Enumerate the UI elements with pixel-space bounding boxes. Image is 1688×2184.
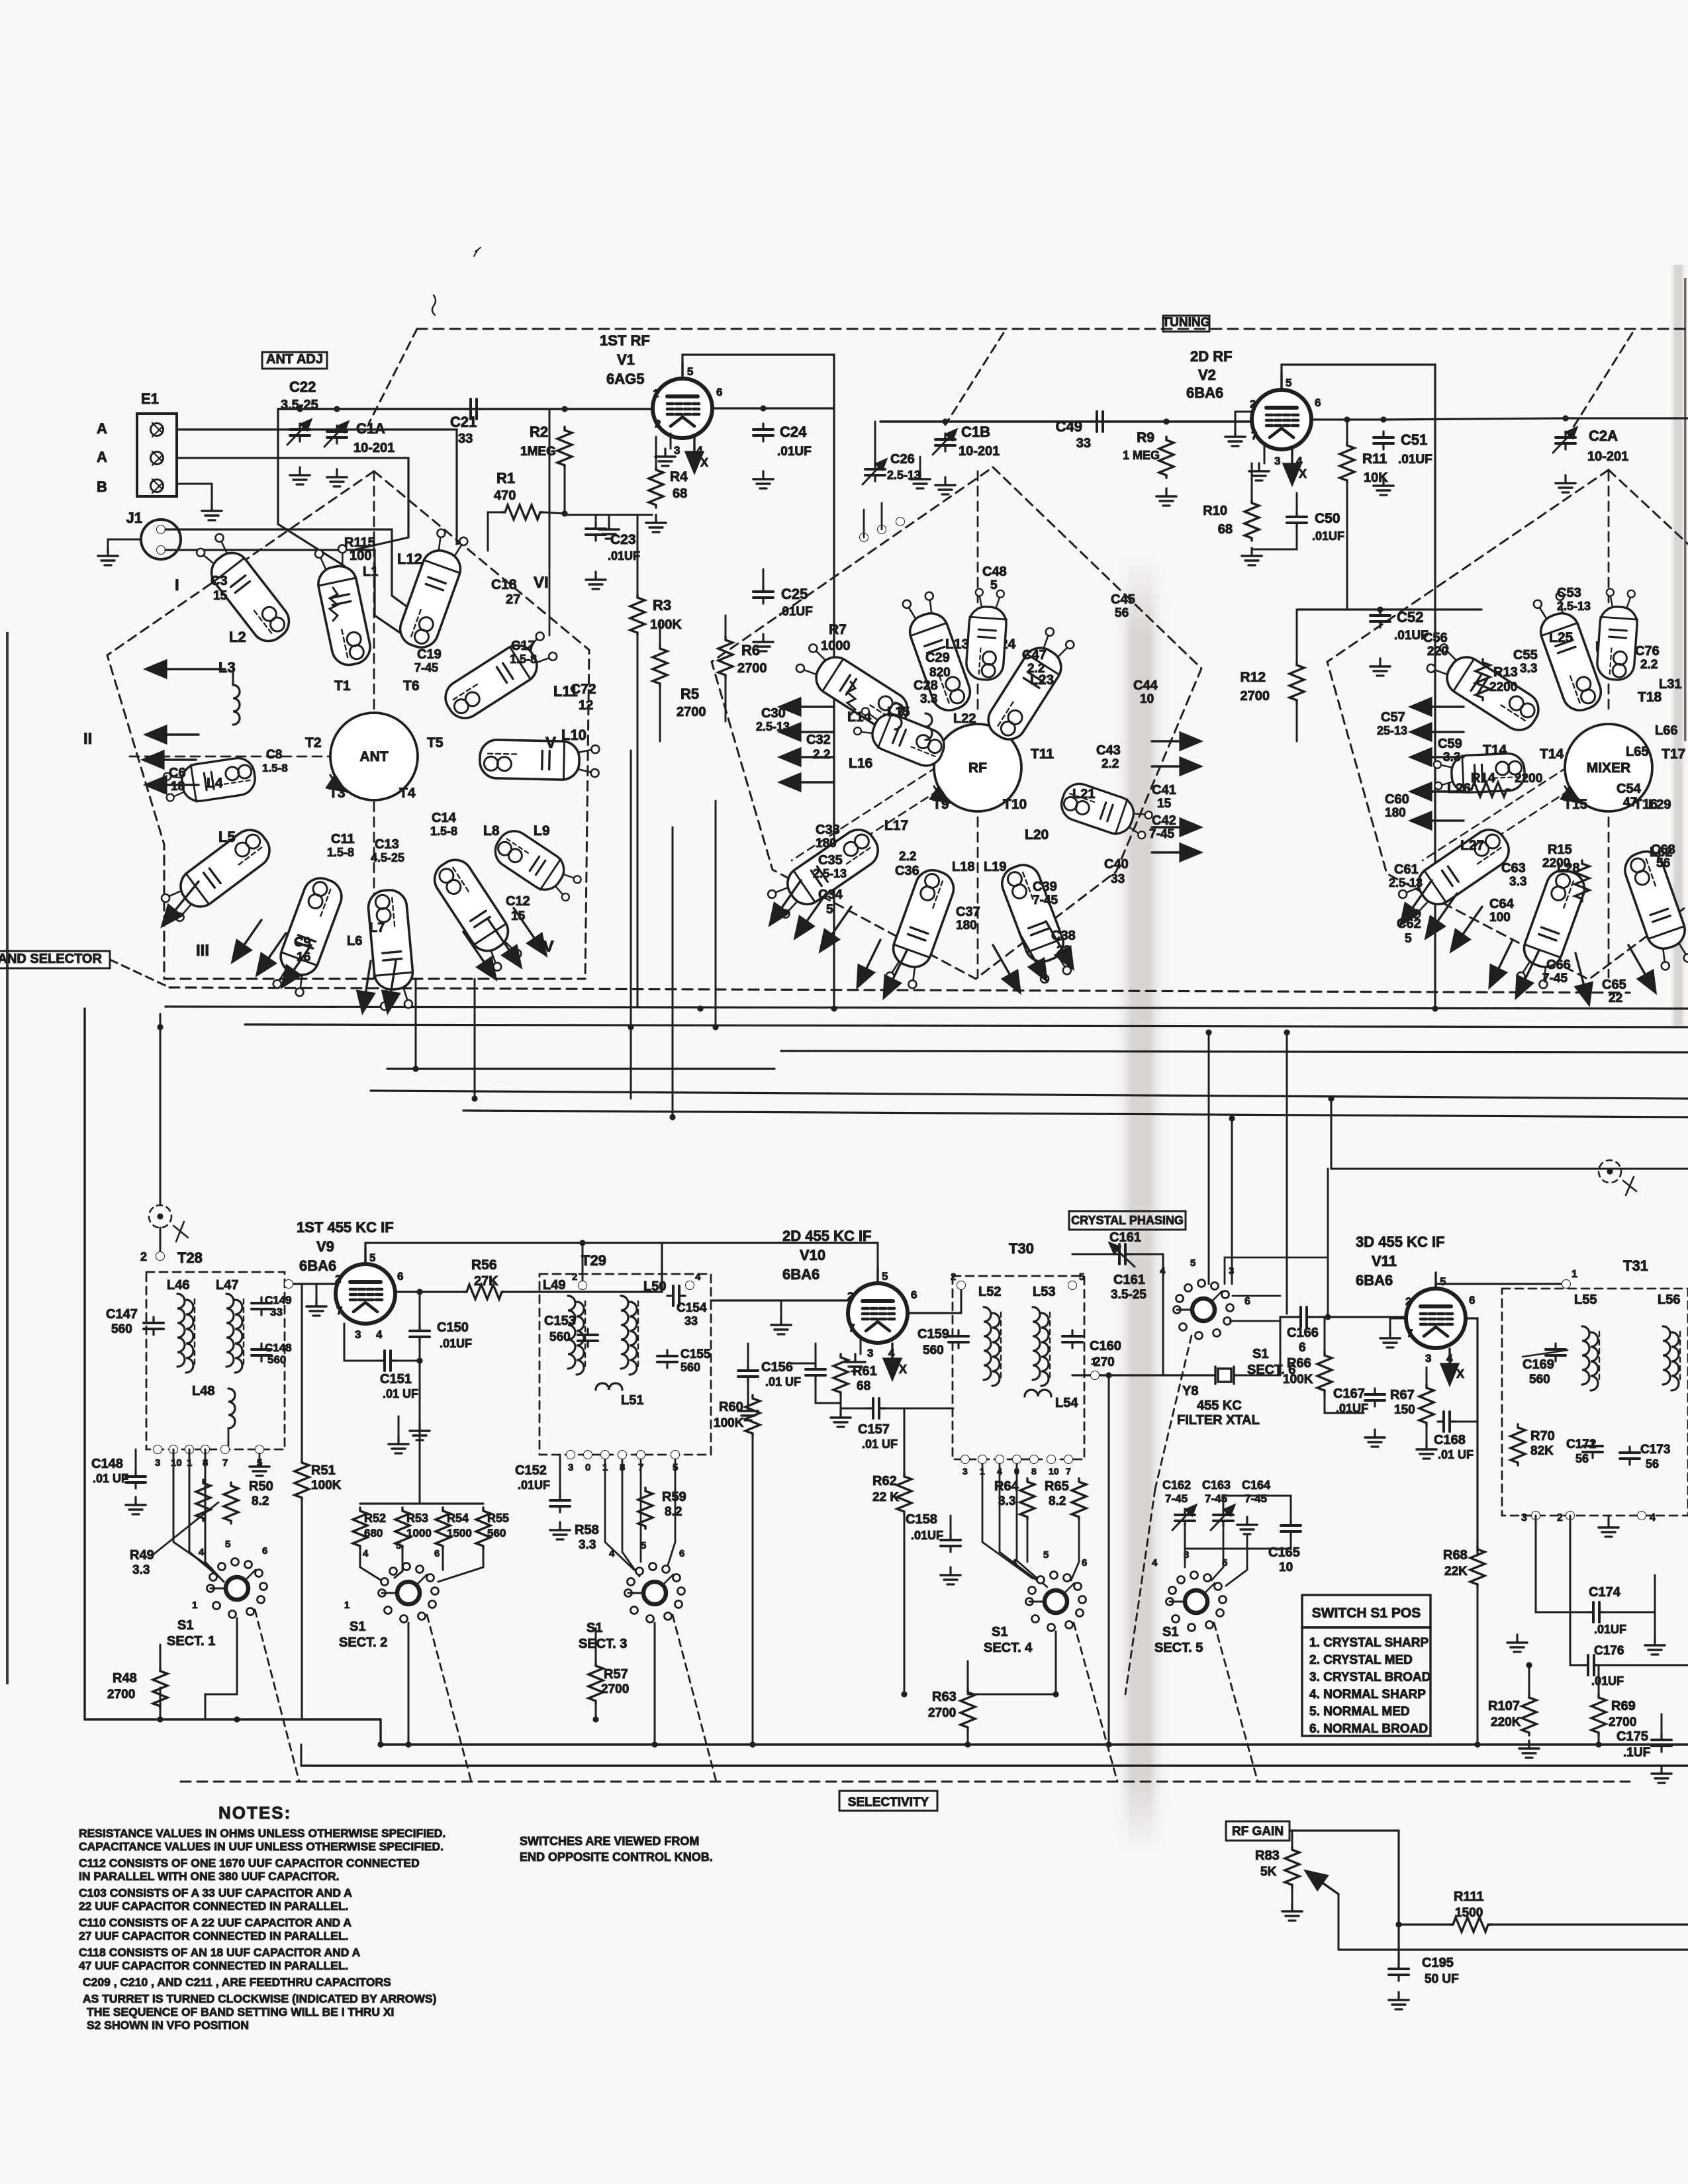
- wire c163 link: [1223, 1496, 1291, 1520]
- junction: [1474, 1741, 1480, 1747]
- svg-text:5K: 5K: [1260, 1865, 1277, 1879]
- svg-text:560: 560: [487, 1527, 506, 1539]
- svg-text:7-45: 7-45: [1542, 972, 1568, 985]
- svg-text:C147: C147: [106, 1307, 138, 1322]
- junction: [1344, 416, 1350, 422]
- junction: [712, 1024, 718, 1030]
- svg-text:5: 5: [369, 1251, 375, 1264]
- svg-text:CRYSTAL PHASING: CRYSTAL PHASING: [1071, 1214, 1184, 1227]
- svg-text:C42: C42: [1152, 813, 1176, 828]
- wire to R10: [1251, 463, 1253, 500]
- t3 arrow W5: [1412, 819, 1464, 821]
- svg-text:L16: L16: [849, 756, 872, 771]
- arrow heater X: [693, 437, 695, 471]
- svg-text:.01UF: .01UF: [1398, 453, 1432, 467]
- t3 arrow S2: [1517, 950, 1539, 997]
- svg-text:C24: C24: [780, 424, 807, 440]
- svg-text:3.5-25: 3.5-25: [281, 398, 318, 412]
- svg-text:L22: L22: [953, 711, 976, 726]
- svg-text:C13: C13: [375, 837, 399, 852]
- svg-text:2700: 2700: [601, 1682, 629, 1696]
- svg-text:C155: C155: [680, 1347, 711, 1361]
- svg-text:7-45: 7-45: [1149, 827, 1174, 841]
- wire wiper down: [1338, 1894, 1340, 1950]
- wire R62 down: [904, 1514, 906, 1694]
- svg-text:3: 3: [568, 1462, 573, 1473]
- left rail to T28: [160, 1228, 162, 1256]
- bus 3 start: [301, 1745, 303, 1766]
- ground: [586, 572, 606, 589]
- svg-text:R5: R5: [680, 686, 699, 702]
- svg-text:1000: 1000: [406, 1527, 432, 1539]
- wire R2 bottom rail: [565, 514, 652, 516]
- terminal: [201, 1445, 210, 1454]
- test point dashed circle right: [1599, 1160, 1621, 1183]
- svg-text:2.2: 2.2: [899, 850, 916, 864]
- dashed selectivity link S5: [1214, 1623, 1258, 1782]
- svg-text:MIXER: MIXER: [1587, 760, 1631, 776]
- arrow out W2: [144, 758, 196, 760]
- svg-text:4: 4: [1152, 1557, 1158, 1569]
- svg-text:560: 560: [267, 1353, 286, 1366]
- svg-text:C30: C30: [761, 706, 786, 721]
- terminal: [579, 1281, 587, 1290]
- capacitor C159: [949, 1330, 968, 1348]
- svg-text:L49: L49: [543, 1278, 565, 1293]
- variable capacitor C1B: [933, 430, 957, 455]
- t3 arrow S1: [1490, 940, 1513, 986]
- svg-text:7-45: 7-45: [1033, 893, 1058, 907]
- svg-text:R51: R51: [311, 1463, 336, 1478]
- svg-text:4.5-25: 4.5-25: [371, 851, 404, 864]
- wire R5 bottom: [659, 686, 661, 741]
- svg-text:455 KC: 455 KC: [1197, 1398, 1242, 1413]
- ground: [389, 1436, 408, 1453]
- junction: [157, 1716, 163, 1722]
- wire rf gain: [1289, 1829, 1399, 1831]
- svg-text:2.2: 2.2: [1027, 662, 1045, 676]
- ground: [202, 503, 222, 520]
- svg-text:C14: C14: [432, 811, 457, 825]
- svg-text:3.3: 3.3: [1509, 875, 1526, 889]
- junction: [1380, 416, 1386, 422]
- wire turret top to grid: [549, 409, 551, 569]
- wire C150 down: [419, 1343, 421, 1423]
- wire Y8 out: [1237, 1375, 1280, 1377]
- svg-text:R55: R55: [487, 1512, 509, 1525]
- svg-text:2200: 2200: [1489, 680, 1517, 694]
- switch wire 1: [173, 1449, 212, 1569]
- svg-text:R67: R67: [1390, 1388, 1415, 1402]
- label box RF GAIN: [1226, 1821, 1289, 1841]
- svg-text:C35: C35: [818, 853, 843, 868]
- svg-text:6: 6: [1469, 1294, 1475, 1306]
- vertical drop c: [715, 801, 717, 1027]
- svg-text:2.5-13: 2.5-13: [1389, 876, 1423, 889]
- dashed divider vertical t3 low: [1608, 802, 1610, 978]
- dashed link to C1B: [945, 333, 1004, 425]
- arrow out SW1: [163, 882, 199, 925]
- wire C156 down: [747, 1383, 749, 1403]
- svg-text:IN PARALLEL WITH ONE 380: IN PARALLEL WITH ONE 380 UUF CAPACITOR.: [79, 1870, 339, 1883]
- terminal: [618, 1451, 627, 1459]
- svg-text:C112 CONSISTS OF ONE 1670: C112 CONSISTS OF ONE 1670 UUF CAPACITOR …: [79, 1856, 420, 1870]
- terminal: [637, 1451, 645, 1459]
- svg-text:2700: 2700: [107, 1688, 135, 1702]
- wire to turret1 top: [278, 409, 344, 566]
- ground: [831, 1410, 851, 1427]
- svg-text:R4: R4: [670, 469, 688, 484]
- svg-text:T28: T28: [177, 1250, 203, 1266]
- junction: [1229, 1115, 1235, 1121]
- junction: [1105, 1372, 1111, 1378]
- terminal: [1068, 1281, 1077, 1290]
- t2 arrow W1: [781, 705, 833, 707]
- svg-text:C174: C174: [1589, 1585, 1621, 1600]
- svg-text:L55: L55: [1574, 1293, 1597, 1307]
- svg-text:470: 470: [494, 488, 516, 503]
- svg-text:C21: C21: [450, 414, 477, 430]
- ground: [1652, 1766, 1671, 1783]
- svg-text:.01 UF: .01 UF: [862, 1437, 898, 1451]
- wire V10 plate up: [877, 1243, 879, 1284]
- wire C151 right: [397, 1360, 420, 1362]
- J1 pin a: [157, 525, 165, 534]
- wire R5 top: [659, 622, 661, 645]
- resistor R107: [1522, 1694, 1536, 1735]
- svg-text:3: 3: [155, 1457, 160, 1469]
- ground: [771, 1317, 791, 1334]
- svg-text:C51: C51: [1401, 432, 1427, 448]
- wire R67 down: [1426, 1426, 1428, 1441]
- wire antenna A1: [177, 430, 465, 544]
- svg-text:RF: RF: [968, 760, 987, 776]
- svg-text:2D 455 KC IF: 2D 455 KC IF: [782, 1228, 872, 1244]
- svg-text:C154: C154: [677, 1301, 707, 1315]
- arrow heater X V10: [891, 1343, 893, 1378]
- turret RF selector circle: [934, 724, 1021, 811]
- wire C156 top: [747, 1343, 749, 1365]
- wire cathode: [670, 433, 672, 449]
- fan S3 a: [605, 1459, 634, 1570]
- svg-text:C161: C161: [1113, 1273, 1145, 1287]
- terminal: [156, 1252, 165, 1261]
- svg-text:C40: C40: [1104, 857, 1129, 872]
- svg-text:56: 56: [1575, 1452, 1589, 1465]
- resistor R115 inside: [330, 588, 338, 621]
- capacitor C23: [586, 523, 606, 541]
- svg-text:C59: C59: [1438, 737, 1462, 751]
- junction: [1053, 1691, 1058, 1697]
- svg-text:T4: T4: [399, 786, 416, 801]
- svg-text:6: 6: [262, 1545, 267, 1557]
- resistor R7 inside: [847, 682, 855, 715]
- dashed link to C2A: [1571, 333, 1632, 430]
- svg-text:8: 8: [1031, 1466, 1037, 1477]
- svg-text:3.3: 3.3: [132, 1563, 150, 1577]
- junction: [1105, 1741, 1111, 1747]
- svg-text:3.3: 3.3: [579, 1538, 596, 1552]
- wire c in: [792, 1343, 816, 1363]
- crystal phasing rail: [1108, 1375, 1110, 1745]
- svg-text:5: 5: [1043, 1549, 1049, 1561]
- svg-text:5: 5: [1190, 1257, 1196, 1269]
- capacitor C166: [1295, 1307, 1313, 1327]
- t2 arrow W3: [781, 756, 833, 758]
- svg-text:L21: L21: [1072, 787, 1095, 801]
- svg-text:C162: C162: [1162, 1479, 1191, 1492]
- resistor R53: [395, 1508, 410, 1549]
- junction: [1395, 1921, 1401, 1927]
- capacitor C176: [1582, 1655, 1600, 1675]
- wire R11 top: [1346, 420, 1348, 442]
- resistor R11: [1340, 442, 1354, 483]
- capacitor C165: [1281, 1520, 1301, 1537]
- terminal: [860, 533, 868, 542]
- terminal G: [151, 480, 164, 492]
- svg-text:1. CRYSTAL SHARP: 1. CRYSTAL SHARP: [1309, 1636, 1429, 1650]
- wire R83 top: [1291, 1831, 1293, 1846]
- svg-text:T31: T31: [1623, 1257, 1648, 1274]
- vacuum tube V11 6BA6: [1406, 1273, 1466, 1348]
- wire stub gnd: [919, 457, 921, 471]
- svg-text:10-201: 10-201: [353, 441, 395, 455]
- wire C26 stub: [874, 422, 876, 463]
- junction: [579, 1240, 585, 1246]
- resistor R10: [1244, 500, 1259, 541]
- svg-text:C26: C26: [890, 452, 915, 467]
- junction: [628, 1024, 633, 1030]
- dashed divider vertical t2: [977, 471, 979, 713]
- svg-text:T9: T9: [933, 797, 949, 812]
- svg-text:10K: 10K: [1364, 471, 1388, 485]
- wire R66 bottom: [1325, 1393, 1364, 1413]
- coil L3: [233, 685, 240, 725]
- coil unit L28 cart: [1513, 866, 1589, 991]
- variable capacitor C22: [287, 420, 311, 445]
- ground: [98, 548, 118, 565]
- series capacitor C21: [475, 408, 490, 410]
- arrow out S1: [363, 961, 371, 1011]
- wire grid gnd v11: [1390, 1318, 1405, 1330]
- svg-text:L10: L10: [561, 727, 586, 743]
- svg-text:C54: C54: [1617, 782, 1642, 796]
- svg-text:R52: R52: [364, 1512, 386, 1525]
- left rail outer: [83, 1009, 85, 1719]
- resistor R62: [897, 1473, 912, 1514]
- svg-text:8.2: 8.2: [1049, 1494, 1066, 1508]
- coil unit L26: [1433, 753, 1525, 794]
- bus wire left: [387, 1068, 774, 1069]
- svg-text:C165: C165: [1268, 1545, 1300, 1560]
- scanner streak band: [0, 0, 1, 1]
- capacitor C174: [1587, 1602, 1605, 1622]
- t3 arrow W4: [1412, 790, 1464, 792]
- wire R48 bottom: [160, 1709, 162, 1719]
- pointer line R49: [152, 1502, 218, 1555]
- junction: [157, 1213, 163, 1219]
- capacitor C50: [1287, 511, 1307, 529]
- crystal Y8: [1210, 1367, 1239, 1384]
- wire C158 stub: [950, 1516, 952, 1534]
- svg-text:C176: C176: [1594, 1644, 1624, 1658]
- svg-text:4: 4: [695, 1271, 701, 1283]
- svg-text:L6: L6: [347, 934, 362, 948]
- ground: [1237, 1517, 1257, 1534]
- svg-text:R14: R14: [1471, 771, 1496, 786]
- wire V1 screen out: [712, 407, 834, 409]
- wire C25 stub: [763, 569, 765, 586]
- terminal: [896, 518, 905, 526]
- svg-text:II: II: [83, 730, 92, 748]
- resistor R52: [353, 1508, 367, 1549]
- arrow out W3: [147, 784, 199, 786]
- svg-text:VI: VI: [534, 574, 549, 592]
- coil unit L9: [489, 825, 585, 905]
- svg-text:C156: C156: [761, 1360, 793, 1375]
- svg-text:2: 2: [1405, 1295, 1411, 1308]
- wire C50 bottom: [1252, 529, 1297, 549]
- riser T30 pri: [961, 1291, 962, 1313]
- svg-text:8.2: 8.2: [665, 1505, 682, 1519]
- svg-text:S1: S1: [1252, 1347, 1268, 1361]
- wire R63 down: [967, 1730, 969, 1745]
- svg-text:R56: R56: [471, 1257, 497, 1273]
- left rail lower: [160, 1688, 162, 1719]
- wire R111 out: [1491, 1923, 1688, 1925]
- svg-text:C43: C43: [1096, 743, 1121, 758]
- svg-text:C49: C49: [1056, 418, 1082, 435]
- wire C50 top: [1296, 493, 1298, 511]
- bus wire B+: [165, 1007, 1688, 1009]
- svg-text:R65: R65: [1045, 1479, 1069, 1494]
- svg-text:SWITCH S1 POS: SWITCH S1 POS: [1312, 1606, 1421, 1621]
- rotary switch S1 SECT.2: [379, 1563, 439, 1623]
- svg-text:100K: 100K: [714, 1416, 744, 1430]
- coil unit L24: [965, 588, 1008, 681]
- svg-text:C161: C161: [1109, 1230, 1141, 1245]
- svg-text:NOTES:: NOTES:: [218, 1803, 291, 1823]
- coil unit L16 C32: [851, 703, 949, 771]
- svg-text:7: 7: [336, 1304, 342, 1317]
- resistor R70: [1511, 1424, 1525, 1465]
- wire C152 stub: [559, 1455, 561, 1494]
- ground: [327, 469, 347, 486]
- svg-text:C39: C39: [1033, 880, 1057, 894]
- terminal screws: [152, 423, 162, 493]
- dashed selectivity bus: [181, 1781, 1630, 1783]
- svg-text:5: 5: [990, 578, 998, 592]
- svg-text:33: 33: [1111, 872, 1125, 886]
- svg-text:X: X: [1299, 467, 1307, 480]
- svg-text:L54: L54: [1055, 1396, 1078, 1410]
- svg-text:R69: R69: [1611, 1699, 1636, 1713]
- wire R69 top: [1598, 1665, 1600, 1694]
- ground: [1225, 429, 1245, 446]
- coil unit L11 C18: [439, 628, 560, 725]
- svg-text:56: 56: [1646, 1457, 1659, 1471]
- fan S3 c: [640, 1459, 642, 1562]
- wire C151 left: [344, 1360, 379, 1362]
- svg-text:L62: L62: [1650, 845, 1672, 860]
- wire R12 top: [1296, 610, 1298, 662]
- test point dashed circle left: [149, 1205, 171, 1228]
- svg-text:R61: R61: [853, 1364, 877, 1379]
- svg-text:6: 6: [911, 1289, 917, 1301]
- inductor L54: [1025, 1390, 1051, 1396]
- svg-text:3: 3: [1521, 1512, 1527, 1524]
- svg-text:5: 5: [1222, 1557, 1227, 1569]
- coil unit L17: [765, 823, 884, 923]
- svg-text:C209 , C210 , AND C211 ,: C209 , C210 , AND C211 , ARE FEEDTHRU CA…: [83, 1976, 391, 1989]
- svg-text:33: 33: [684, 1314, 698, 1328]
- svg-text:I: I: [175, 576, 179, 594]
- wire term5 gnd stub: [259, 1453, 261, 1459]
- svg-text:2: 2: [1250, 398, 1256, 410]
- ground: [1417, 1441, 1436, 1459]
- label box TUNING: [1163, 316, 1209, 332]
- junction: [561, 406, 567, 412]
- svg-text:6: 6: [679, 1548, 684, 1559]
- ground: [1556, 475, 1575, 492]
- svg-text:1 MEG: 1 MEG: [1123, 449, 1160, 462]
- dashed link to C1A: [369, 329, 417, 424]
- terminal: [169, 1445, 178, 1454]
- arrow out SW4: [283, 945, 311, 986]
- svg-text:R66: R66: [1287, 1356, 1311, 1371]
- svg-text:10: 10: [1279, 1561, 1293, 1574]
- svg-text:C110 CONSISTS OF A 22 UUF: C110 CONSISTS OF A 22 UUF CAPACITOR AND …: [79, 1916, 352, 1929]
- t2 arrow SE1: [993, 945, 1019, 991]
- svg-text:180: 180: [1385, 806, 1406, 820]
- coil unit L10: [479, 739, 599, 780]
- dashed selectivity link S2: [427, 1615, 471, 1782]
- svg-text:4: 4: [609, 1548, 615, 1559]
- svg-text:THE SEQUENCE OF BAND SETTI: THE SEQUENCE OF BAND SETTING WILL BE I T…: [87, 2005, 394, 2019]
- wire R57 bottom: [595, 1704, 597, 1719]
- capacitor C152: [550, 1494, 570, 1512]
- svg-text:T10: T10: [1003, 797, 1027, 812]
- junction: [416, 1289, 422, 1295]
- junction: [1526, 1662, 1532, 1668]
- svg-text:R70: R70: [1530, 1429, 1555, 1443]
- junction: [1105, 1741, 1111, 1747]
- ground: [1389, 1992, 1409, 2009]
- svg-text:180: 180: [956, 919, 977, 933]
- svg-text:L18: L18: [952, 860, 974, 874]
- svg-text:1.5-8: 1.5-8: [327, 846, 354, 859]
- wire crystal rail: [1072, 1374, 1213, 1376]
- svg-text:L4: L4: [207, 776, 223, 791]
- terminal: [1091, 1371, 1100, 1380]
- svg-text:B: B: [97, 478, 107, 495]
- svg-text:3: 3: [1274, 455, 1280, 467]
- svg-text:R64: R64: [994, 1479, 1019, 1494]
- svg-text:2700: 2700: [1241, 689, 1270, 704]
- svg-text:6: 6: [1082, 1557, 1087, 1569]
- svg-text:6BA6: 6BA6: [1186, 385, 1223, 401]
- svg-text:S1: S1: [1162, 1625, 1178, 1639]
- ground: [410, 1423, 430, 1440]
- arrow heater X V2: [1291, 449, 1293, 483]
- svg-text:22: 22: [1609, 991, 1622, 1005]
- svg-text:1MEG: 1MEG: [520, 445, 556, 459]
- svg-text:S1: S1: [350, 1619, 365, 1634]
- dashed rotation guide: [792, 760, 961, 876]
- wire R66 top: [1324, 1317, 1326, 1352]
- wire to R111: [1399, 1923, 1448, 1925]
- turret1 drop a: [415, 979, 417, 1069]
